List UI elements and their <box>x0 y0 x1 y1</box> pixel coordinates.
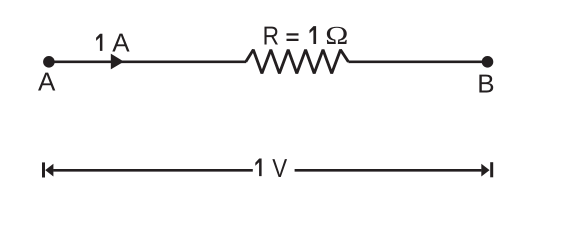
svg-text:A: A <box>38 66 56 96</box>
dimension right arrowhead <box>481 164 489 177</box>
label 1 V : digit 1 <box>255 159 261 177</box>
wire resistor to B <box>348 60 487 63</box>
svg-text:V: V <box>272 153 287 183</box>
dimension wire right segment <box>295 169 482 172</box>
value label: digit 1 <box>310 26 317 44</box>
label 1 A : digit 1 <box>96 34 102 51</box>
resistor R1 zigzag <box>246 50 349 74</box>
current arrow <box>111 54 124 70</box>
svg-text:A: A <box>112 27 130 57</box>
dimension wire left segment <box>53 169 253 172</box>
dimension right tick <box>490 162 493 177</box>
value label: equals sign <box>287 33 299 35</box>
node B <box>482 56 494 68</box>
svg-text:B: B <box>477 69 494 99</box>
node A <box>43 56 55 68</box>
svg-text:Ω: Ω <box>325 21 348 50</box>
dimension left arrowhead <box>45 164 53 177</box>
wire A to resistor <box>49 60 246 63</box>
dimension left tick <box>42 162 45 177</box>
svg-text:R: R <box>263 20 279 50</box>
